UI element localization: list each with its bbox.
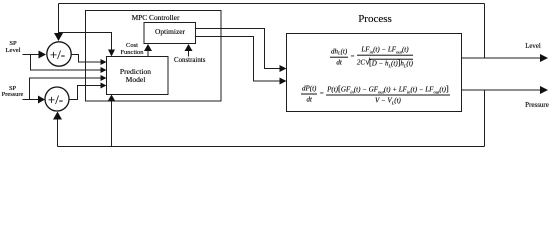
arrowhead: Pressure output (540, 86, 548, 94)
label: Optimizer (144, 28, 196, 35)
arrowhead: into summing junction 1 top (54, 33, 63, 41)
label: Cost Function (117, 42, 147, 57)
arrowhead: cost function into optimizer (144, 44, 152, 51)
wire: cost function arrow (PM top to Optimizer bottom) (147, 50, 149, 57)
arrowhead: PM input 4 (101, 83, 107, 89)
wire: branch from level feedback to Prediction Model top (59, 33, 112, 51)
arrowhead: Level output (540, 54, 548, 62)
wire: SP Pressure input line (23, 99, 40, 101)
arrowhead: into summing junction 1 left (39, 51, 47, 59)
equation: level ODE (330, 46, 413, 69)
box: Optimizer (144, 23, 196, 44)
wire: summing junction 1 output to Prediction Model input 1 (72, 55, 102, 63)
label: SP Pressure (0, 86, 25, 99)
wire: pressure feedback branch up into Prediction Model bottom (111, 101, 113, 147)
arrowhead: PM bottom input (108, 95, 116, 102)
label: MPC Controller (116, 14, 196, 21)
arrowhead: PM top input (108, 50, 115, 57)
arrowhead: PM input 1 (101, 59, 107, 65)
summing junction 1 circle (47, 42, 71, 66)
wire: Level output line (462, 57, 542, 59)
arrowhead: into summing junction 2 left (38, 96, 45, 104)
equation: pressure ODE (301, 84, 450, 105)
wire: optimizer output B to process lower input (196, 37, 281, 82)
wire: summing junction 2 output to Prediction Model input 4 (70, 86, 102, 100)
box: MPC Controller (86, 11, 222, 102)
wire: optimizer output A to process upper input (196, 29, 281, 69)
wire: bottom feedback horizontal (Pressure) (58, 146, 485, 148)
label: SP Level (0, 41, 26, 54)
label: Pressure output (515, 102, 550, 109)
wire: Pressure output line (462, 89, 542, 91)
wire: Pressure feedback tap vertical (484, 90, 486, 147)
label: Prediction Model (105, 68, 166, 83)
summing junction 2 circle (45, 87, 69, 111)
wire: top feedback vertical down into summing junction 1 (58, 4, 60, 35)
box: process equations inner box (287, 34, 462, 112)
wire: SP Pressure branch up to Prediction Model input 3 (30, 78, 102, 100)
label: Constraints (174, 58, 204, 65)
arrowhead: process upper input (280, 65, 287, 72)
label: Level output (516, 44, 550, 51)
label: +/- in summing junction 2 (44, 93, 68, 106)
wire: SP Level input line (23, 54, 40, 56)
arrowhead: constraints into optimizer (185, 44, 193, 51)
label: Process (345, 14, 405, 25)
arrowhead: PM input 2 (101, 67, 107, 73)
wire: SP Level branch down to Prediction Model input 2 (31, 55, 102, 71)
wire: top feedback horizontal (Level) (59, 3, 485, 5)
arrowhead: into summing junction 2 bottom (53, 112, 62, 120)
wire: constraints arrow stub (188, 50, 190, 57)
label: +/- in summing junction 1 (46, 48, 70, 61)
wire: bottom feedback vertical up into summing junction 2 (57, 119, 59, 147)
arrowhead: PM input 3 (101, 75, 107, 81)
wire: Level feedback tap vertical (484, 4, 486, 59)
arrowhead: process lower input (280, 78, 287, 85)
box: Prediction Model (107, 57, 169, 95)
